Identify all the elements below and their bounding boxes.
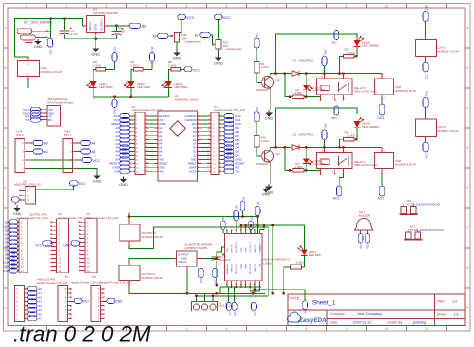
svg-text:VCC: VCC xyxy=(223,15,232,20)
svg-text:D11/MOSI: D11/MOSI xyxy=(185,118,197,122)
wire coil rail xyxy=(325,73,383,75)
wire collector rail xyxy=(270,147,291,151)
capacitor C2 47uF xyxy=(116,26,118,31)
potentiometer R13 10K xyxy=(216,40,221,50)
svg-text:VCC: VCC xyxy=(79,182,87,186)
svg-text:GND: GND xyxy=(246,264,248,269)
ground (CN4/CN5) xyxy=(96,173,98,175)
svg-text:2.2KΩ: 2.2KΩ xyxy=(261,65,270,69)
svg-text:100uF: 100uF xyxy=(223,258,231,262)
CN4 pins xyxy=(25,142,31,144)
CN5 pins xyxy=(73,142,79,144)
svg-text:LM7805CT/NOPB: LM7805CT/NOPB xyxy=(93,11,118,15)
LED LED3 RED xyxy=(127,81,134,88)
wire bus cross xyxy=(241,224,304,226)
svg-text:WJ250A-3.50-2P: WJ250A-3.50-2P xyxy=(41,70,62,74)
net flag A4 (CN5) xyxy=(81,140,91,145)
svg-text:GND: GND xyxy=(34,44,43,49)
svg-text:DK2: DK2 xyxy=(332,40,338,44)
svg-text:LED RED: LED RED xyxy=(137,85,151,89)
wire loop to LED5 xyxy=(276,34,358,74)
wire output1 pin2 xyxy=(129,286,180,293)
svg-text:11: 11 xyxy=(425,327,429,331)
svg-text:1/1: 1/1 xyxy=(454,312,459,316)
net flag 12V (jack) xyxy=(47,38,52,47)
svg-text:INPUT3: INPUT3 xyxy=(255,244,257,253)
wire emitter xyxy=(269,88,271,111)
svg-text:LED GREEN: LED GREEN xyxy=(362,44,379,48)
wire CN4 pin1 gnd xyxy=(31,168,92,170)
net flag VCC (P7) xyxy=(74,298,82,303)
svg-text:Your Company: Your Company xyxy=(357,312,382,316)
svg-text:VCC: VCC xyxy=(93,159,101,163)
svg-text:6: 6 xyxy=(226,4,228,8)
svg-text:AC2: AC2 xyxy=(378,196,385,200)
svg-text:7: 7 xyxy=(266,327,268,331)
LED LED5 GREEN xyxy=(354,40,361,47)
svg-text:VIN: VIN xyxy=(114,169,119,173)
svg-text:D10: D10 xyxy=(192,122,197,126)
svg-text:D2: D2 xyxy=(193,154,197,158)
svg-text:potentiometer: potentiometer xyxy=(185,40,201,44)
junction at C1 top xyxy=(63,17,66,20)
svg-text:A1: A1 xyxy=(44,150,48,154)
svg-text:4: 4 xyxy=(146,4,148,8)
svg-text:.tran 0 2 0 2M: .tran 0 2 0 2M xyxy=(13,322,151,347)
net flag AC3 xyxy=(423,142,428,152)
svg-text:Header-Female 2.54_1x15: Header-Female 2.54_1x15 xyxy=(214,108,245,112)
net flag A0 (CN4) xyxy=(33,140,43,145)
svg-text:LED RED: LED RED xyxy=(175,85,189,89)
svg-text:F: F xyxy=(466,226,468,230)
svg-text:AC2: AC2 xyxy=(367,243,370,248)
svg-text:Header-Female 2.54_1x13: Header-Female 2.54_1x13 xyxy=(87,216,119,220)
svg-text:B: B xyxy=(5,66,7,70)
svg-text:47uF: 47uF xyxy=(71,32,78,36)
wire VCC to R13 xyxy=(217,20,219,40)
svg-text:DC1: DC1 xyxy=(425,74,428,80)
svg-text:RESET: RESET xyxy=(159,161,168,165)
svg-text:2.2KΩ: 2.2KΩ xyxy=(168,63,177,67)
svg-text:OUTPUT4: OUTPUT4 xyxy=(236,242,238,253)
svg-text:D4: D4 xyxy=(193,146,197,150)
svg-text:VCC: VCC xyxy=(35,243,42,247)
relay RELAY6 SRD-12VDC-SL-C xyxy=(317,153,353,169)
svg-text:GND: GND xyxy=(173,55,182,60)
wire CN5 pin2 xyxy=(78,159,82,161)
svg-text:GND: GND xyxy=(181,256,187,260)
svg-text:GND: GND xyxy=(119,182,128,187)
net flag DC2 xyxy=(381,100,383,104)
svg-text:1N4007RLG: 1N4007RLG xyxy=(299,59,314,63)
svg-text:D12: D12 xyxy=(3,269,9,273)
svg-text:Header-Female 2.54_1x8: Header-Female 2.54_1x8 xyxy=(71,280,102,284)
svg-text:12V: 12V xyxy=(229,311,231,315)
svg-text:D1/TX: D1/TX xyxy=(189,169,197,173)
wire reg out xyxy=(203,258,217,260)
svg-text:RX: RX xyxy=(48,118,52,122)
wire VCC to R12 xyxy=(181,20,183,33)
transistor Q2 2N2222A xyxy=(262,150,274,162)
svg-text:A0: A0 xyxy=(44,142,48,146)
svg-text:ARDUINO_NANO: ARDUINO_NANO xyxy=(175,98,200,102)
svg-text:8: 8 xyxy=(306,327,308,331)
svg-text:L293D: L293D xyxy=(263,261,273,265)
svg-text:GND: GND xyxy=(214,60,223,65)
svg-text:B: B xyxy=(466,66,468,70)
svg-text:GND: GND xyxy=(115,300,123,304)
svg-text:D2: D2 xyxy=(293,133,297,137)
LED LED4 RED (power) xyxy=(165,81,172,88)
svg-text:A1: A1 xyxy=(195,34,199,38)
svg-text:VCC: VCC xyxy=(214,278,217,283)
svg-text:D12: D12 xyxy=(150,46,154,51)
svg-text:D13/SCK: D13/SCK xyxy=(159,114,170,118)
svg-text:VSS: VSS xyxy=(227,248,229,253)
svg-text:12V: 12V xyxy=(323,50,327,55)
svg-text:WJ250A-3.50-2P: WJ250A-3.50-2P xyxy=(142,276,163,280)
net flag VCC (CN4/CN5) xyxy=(82,157,92,162)
connector CN6 WJ250A-3.50-2P xyxy=(375,79,394,95)
svg-text:+5V: +5V xyxy=(159,157,164,161)
svg-text:D7: D7 xyxy=(255,33,259,37)
svg-text:WJ250A-3.50-2P: WJ250A-3.50-2P xyxy=(438,49,459,53)
wire indicator branch xyxy=(284,74,286,97)
svg-text:AKL5-2-3.5-P: AKL5-2-3.5-P xyxy=(218,305,233,308)
svg-text:7: 7 xyxy=(266,4,268,8)
wire bus 1 xyxy=(129,216,258,218)
svg-text:ENABLE2: ENABLE2 xyxy=(259,242,262,253)
svg-text:2.2KΩ: 2.2KΩ xyxy=(130,63,139,67)
connector CNY1 WJ250A-3.50-2P xyxy=(425,34,427,40)
svg-text:D10: D10 xyxy=(251,215,254,220)
svg-text:D5: D5 xyxy=(193,142,197,146)
svg-text:GND: GND xyxy=(191,157,197,161)
net flag OUT (terminal) xyxy=(251,302,256,310)
svg-text:INPUT: INPUT xyxy=(88,22,92,31)
svg-text:HEADERS_PINS_1X3: HEADERS_PINS_1X3 xyxy=(14,183,42,187)
ground (jack) xyxy=(37,39,39,41)
net flag A4 (aux) xyxy=(303,301,308,310)
net flag M1 (terminal) xyxy=(226,302,231,310)
connector OUTPUT1 WJ250A-3.50-2P xyxy=(119,265,140,280)
svg-text:D6: D6 xyxy=(193,138,197,142)
svg-text:WJ250A-3.50-2P: WJ250A-3.50-2P xyxy=(395,163,416,167)
ic U6 MOTOR-DRIVER L293D xyxy=(224,233,262,280)
wire U5 vcc xyxy=(35,186,73,190)
svg-text:Q1: Q1 xyxy=(276,78,280,82)
svg-text:ENABLE1: ENABLE1 xyxy=(226,263,229,274)
svg-text:jednalig: jednalig xyxy=(412,321,426,325)
svg-text:INPUT4: INPUT4 xyxy=(232,244,234,253)
transistor Q1 2N2222A xyxy=(262,76,274,88)
wire collector rail xyxy=(270,74,291,78)
svg-text:LED RED: LED RED xyxy=(309,253,321,257)
svg-text:VCC: VCC xyxy=(186,15,195,20)
svg-text:Q2: Q2 xyxy=(276,152,280,156)
svg-text:DK1: DK1 xyxy=(425,5,428,10)
net flag GND (P8) xyxy=(107,298,115,303)
svg-text:BUZZER: BUZZER xyxy=(359,214,370,218)
net flag VCC (R13) xyxy=(214,14,222,19)
svg-text:GND: GND xyxy=(235,311,237,316)
P4 pins xyxy=(51,221,57,223)
svg-text:D1: D1 xyxy=(293,59,297,63)
svg-text:DIGITAL-PIN: DIGITAL-PIN xyxy=(29,212,46,216)
svg-text:TX: TX xyxy=(235,169,239,173)
svg-text:9: 9 xyxy=(346,327,348,331)
svg-text:GND: GND xyxy=(265,116,274,121)
svg-text:WJ250A-3.50-2P: WJ250A-3.50-2P xyxy=(142,235,163,239)
net flag VCC (reg) xyxy=(213,269,218,278)
title block frame xyxy=(288,294,465,326)
wire U4 gnd xyxy=(95,35,97,46)
svg-text:P8: P8 xyxy=(92,275,96,279)
svg-text:3: 3 xyxy=(106,4,108,8)
wire gnd rail xyxy=(65,38,117,40)
svg-text:OUTPUT: OUTPUT xyxy=(100,18,104,31)
wire bus verticals to driver xyxy=(240,225,242,229)
svg-text:GND: GND xyxy=(159,165,165,169)
wire reg gnd xyxy=(186,272,188,294)
LED LED7 RED xyxy=(303,85,310,90)
svg-text:10: 10 xyxy=(385,4,389,8)
svg-text:GND: GND xyxy=(91,51,100,56)
module pins and net flags VCC/GND/RX/TX xyxy=(41,109,47,111)
potentiometer R12 10K xyxy=(174,32,179,42)
capacitor C1 47uF xyxy=(64,19,66,31)
net flag VCC (R12) xyxy=(178,14,186,19)
svg-text:5: 5 xyxy=(186,327,188,331)
svg-text:WJ250A-3.50-2P: WJ250A-3.50-2P xyxy=(395,89,416,93)
svg-text:D12/MISO: D12/MISO xyxy=(185,114,197,118)
P5 pins xyxy=(79,221,85,223)
svg-text:Header-Female 2.54_1x13: Header-Female 2.54_1x13 xyxy=(16,216,48,220)
connector CN1 WJ250A-3.50-2P xyxy=(18,61,40,77)
svg-text:P5: P5 xyxy=(87,212,91,216)
svg-text:A4: A4 xyxy=(92,142,96,146)
svg-text:10: 10 xyxy=(385,327,389,331)
svg-text:A7: A7 xyxy=(38,317,42,321)
LED LED6 GREEN xyxy=(354,121,361,128)
svg-text:OUTPUT1: OUTPUT1 xyxy=(236,263,238,274)
wire CN4 pin2 vcc xyxy=(31,159,83,161)
svg-text:SRD-12VDC-SL-C: SRD-12VDC-SL-C xyxy=(354,89,377,93)
svg-text:EasyEDA: EasyEDA xyxy=(299,317,327,324)
svg-text:PIN 4: PIN 4 xyxy=(16,133,23,137)
svg-text:D8: D8 xyxy=(193,130,197,134)
net flag AC2 xyxy=(381,174,383,186)
svg-text:GND: GND xyxy=(262,192,271,197)
net flag (U5 pin3) xyxy=(11,197,19,202)
net flag A1 (CN4) xyxy=(33,149,43,154)
svg-text:GND: GND xyxy=(94,23,98,31)
svg-text:D0/RX: D0/RX xyxy=(189,165,197,169)
svg-text:ANALOG-PIN: ANALOG-PIN xyxy=(37,278,56,282)
svg-text:VCC: VCC xyxy=(83,300,90,304)
junction at jack V+ xyxy=(49,17,52,20)
svg-text:6: 6 xyxy=(226,327,228,331)
svg-text:GND: GND xyxy=(13,211,22,216)
svg-text:P7: P7 xyxy=(65,275,69,279)
svg-text:P4: P4 xyxy=(58,212,62,216)
svg-text:Drawn By:: Drawn By: xyxy=(388,321,404,325)
svg-text:DK3: DK3 xyxy=(425,91,428,96)
svg-text:2020-11-12: 2020-11-12 xyxy=(353,321,372,325)
svg-text:E: E xyxy=(5,186,7,190)
svg-text:D8: D8 xyxy=(255,107,259,111)
svg-text:IN: IN xyxy=(142,24,146,29)
svg-text:DK4: DK4 xyxy=(332,116,338,120)
LED LED2 RED xyxy=(303,159,310,164)
P7 pins xyxy=(67,288,71,290)
connector OUTPUT3 WJ250A-3.50-2P xyxy=(120,224,140,241)
svg-text:OUTPUT2: OUTPUT2 xyxy=(250,263,252,274)
wire jack to 12V flag xyxy=(48,19,51,32)
svg-text:DC_JACK_BARREL: DC_JACK_BARREL xyxy=(24,21,53,25)
wire CN1 pin2 xyxy=(27,80,29,88)
wire output1 pin1 xyxy=(129,258,174,261)
svg-text:12V: 12V xyxy=(49,50,53,55)
svg-text:potentiometer: potentiometer xyxy=(226,47,242,51)
P8 pins xyxy=(101,288,105,290)
svg-text:TO-220_218-531XXXXXXXXX: TO-220_218-531XXXXXXXXX xyxy=(406,203,440,206)
svg-text:12V: 12V xyxy=(200,278,203,283)
svg-text:OUTPUT: OUTPUT xyxy=(178,252,189,256)
svg-text:TITLE:: TITLE: xyxy=(290,296,301,300)
svg-text:Date:: Date: xyxy=(330,321,338,325)
net flag VCC (U5) xyxy=(70,181,79,186)
svg-text:D3: D3 xyxy=(193,150,197,154)
net flag 12V (reg) xyxy=(198,269,203,278)
net flag GND (led rail) xyxy=(112,99,117,108)
svg-text:4 Pin Female Header: 4 Pin Female Header xyxy=(47,100,73,104)
svg-text:LM7805CT-NOPB: LM7805CT-NOPB xyxy=(184,246,207,250)
net flag AC1 xyxy=(339,174,343,186)
svg-text:INPUT: INPUT xyxy=(179,260,187,264)
ground (bus) xyxy=(265,187,267,189)
wire output3 pin2 loop xyxy=(129,227,268,296)
svg-text:2N2222A: 2N2222A xyxy=(256,162,268,166)
svg-text:D9: D9 xyxy=(193,126,197,130)
net flag BZ2 xyxy=(365,234,370,244)
wire indicator branch xyxy=(284,147,286,170)
wire U4 out xyxy=(108,25,129,27)
svg-text:REV:: REV: xyxy=(438,300,446,304)
svg-text:RESET: RESET xyxy=(188,161,197,165)
svg-text:GND: GND xyxy=(63,243,71,247)
svg-text:GND: GND xyxy=(241,247,243,252)
svg-text:3V3: 3V3 xyxy=(159,118,164,122)
ground (Q1) xyxy=(268,110,270,113)
svg-text:LED RED: LED RED xyxy=(99,85,113,89)
svg-text:INPUT1: INPUT1 xyxy=(232,263,234,272)
svg-text:OUTPUT3: OUTPUT3 xyxy=(250,242,252,253)
wire CN5 pin1 xyxy=(78,169,97,174)
svg-text:GND: GND xyxy=(241,264,243,269)
ground (U5) xyxy=(16,206,18,208)
svg-text:DC2: DC2 xyxy=(378,116,385,120)
capacitor C9 100uF xyxy=(212,256,222,258)
net flag IN xyxy=(129,23,141,28)
svg-text:2.2KΩ: 2.2KΩ xyxy=(93,63,102,67)
wire to CN1 xyxy=(15,56,28,58)
svg-text:VCC: VCC xyxy=(193,68,201,72)
svg-text:1: 1 xyxy=(26,4,28,8)
net flag DC1 xyxy=(423,62,428,72)
svg-text:Company:: Company: xyxy=(330,312,346,316)
wire 12V top rail xyxy=(15,19,83,58)
svg-text:D11: D11 xyxy=(113,46,117,51)
ground (U4) xyxy=(95,46,97,48)
svg-text:2.2KΩ: 2.2KΩ xyxy=(296,261,304,265)
svg-text:Sheet:: Sheet: xyxy=(437,312,447,316)
svg-text:VIN: VIN xyxy=(159,169,163,173)
svg-text:2.2KΩ: 2.2KΩ xyxy=(261,139,270,143)
ground (R13) xyxy=(217,55,219,57)
svg-text:D7: D7 xyxy=(193,134,197,138)
wire LED cathode rail xyxy=(93,96,168,98)
svg-text:1.0: 1.0 xyxy=(452,300,457,304)
svg-text:8: 8 xyxy=(306,4,308,8)
easyeda logo xyxy=(287,312,300,322)
terminal X1 AKL5-2-3.5-P xyxy=(192,301,218,311)
svg-text:SRD-12VDC-SL-C: SRD-12VDC-SL-C xyxy=(354,163,377,167)
svg-text:5V: 5V xyxy=(222,217,225,220)
svg-text:1N4007RLG: 1N4007RLG xyxy=(299,133,314,137)
net flag A5 (CN5) xyxy=(81,149,91,154)
svg-text:AREF: AREF xyxy=(159,122,166,126)
svg-text:AC1: AC1 xyxy=(360,243,363,248)
svg-text:E: E xyxy=(466,186,468,190)
svg-text:2N2222A: 2N2222A xyxy=(256,88,268,92)
svg-text:LED GREEN: LED GREEN xyxy=(362,125,379,129)
wire coil rail xyxy=(325,146,383,148)
wire loop to LED6 xyxy=(276,108,358,148)
svg-text:Sheet_1: Sheet_1 xyxy=(312,300,336,307)
svg-text:2: 2 xyxy=(66,4,68,8)
svg-text:A5: A5 xyxy=(92,150,96,154)
svg-text:AC1: AC1 xyxy=(333,196,340,200)
connector CN8 WJ250A-3.50-2P xyxy=(375,153,394,169)
ground (R12) xyxy=(176,50,178,52)
svg-text:GND: GND xyxy=(246,247,248,252)
LED LED1 RED xyxy=(90,81,97,88)
svg-text:GND: GND xyxy=(93,178,102,183)
connector CNY3 WJ250A-3.50-2P xyxy=(425,114,427,119)
wire driver verticals xyxy=(228,287,230,302)
svg-text:Header-Female 2.54_1x8: Header-Female 2.54_1x8 xyxy=(37,281,68,285)
ground (nano) xyxy=(123,177,125,179)
wire driver bottom bus xyxy=(220,286,261,288)
wire driver right loop xyxy=(272,225,274,293)
ground (Q2) xyxy=(268,184,270,187)
net flag VCC (R8) xyxy=(184,67,192,72)
svg-text:9: 9 xyxy=(346,4,348,8)
relay RELAY5 SRD-12VDC-SL-C xyxy=(317,79,353,95)
LED LED4 RED (motor) xyxy=(303,225,305,249)
svg-text:12V: 12V xyxy=(236,205,239,210)
wire emitter xyxy=(269,161,271,184)
net flag M2 (terminal) xyxy=(232,302,237,310)
svg-text:5: 5 xyxy=(186,4,188,8)
svg-text:47uF: 47uF xyxy=(118,30,125,34)
svg-text:PIN 4: PIN 4 xyxy=(64,133,71,137)
svg-text:AC2: AC2 xyxy=(425,153,428,158)
svg-text:WJ250A-3.50-2P: WJ250A-3.50-2P xyxy=(438,129,459,133)
svg-text:12V: 12V xyxy=(323,123,327,128)
net flag BZ1 xyxy=(358,234,363,244)
